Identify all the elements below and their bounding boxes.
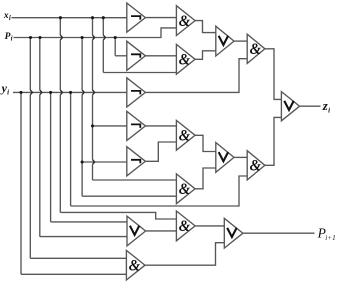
svg-text:&: & [250, 157, 261, 175]
svg-text:&: & [179, 127, 190, 145]
svg-text:&: & [129, 257, 140, 275]
svg-text:&: & [250, 40, 261, 58]
svg-text:&: & [179, 51, 190, 69]
svg-text:&: & [179, 12, 190, 30]
svg-text:&: & [179, 218, 190, 236]
svg-text:&: & [179, 180, 190, 198]
